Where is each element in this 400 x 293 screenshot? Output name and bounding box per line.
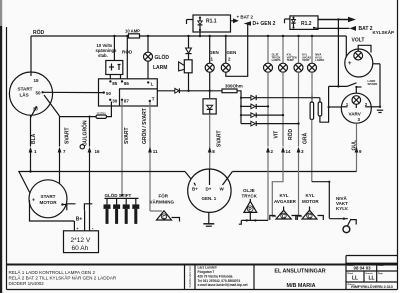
svg-text:FÖR: FÖR: [159, 193, 169, 199]
svg-text:SVART: SVART: [124, 127, 130, 144]
svg-text:10 Ohm: 10 Ohm: [97, 111, 106, 115]
svg-text:300Ohm: 300Ohm: [225, 84, 243, 89]
svg-text:C: C: [308, 214, 312, 220]
svg-text:VIT: VIT: [274, 131, 280, 139]
svg-text:START: START: [18, 87, 33, 92]
svg-text:GRÅ: GRÅ: [302, 133, 309, 145]
svg-text:Konstr: Konstr: [366, 272, 373, 275]
svg-text:14: 14: [286, 149, 292, 154]
svg-text:Foxgatan 7: Foxgatan 7: [198, 270, 215, 274]
svg-text:SVART: SVART: [217, 130, 223, 147]
svg-text:86: 86: [124, 81, 130, 86]
svg-text:LÅS: LÅS: [20, 92, 29, 98]
svg-text:C: C: [162, 215, 166, 221]
svg-text:LAMPA: LAMPA: [315, 58, 324, 62]
svg-text:Godk: Godk: [378, 265, 384, 267]
svg-text:15: 15: [34, 78, 40, 83]
svg-text:GRÖN / SVART: GRÖN / SVART: [141, 108, 148, 144]
svg-text:RIMFYRKLÖVERN 2:313: RIMFYRKLÖVERN 2:313: [351, 284, 393, 289]
svg-text:50: 50: [36, 91, 42, 96]
svg-text:GEN: GEN: [227, 50, 237, 55]
svg-text:D+ GEN 2: D+ GEN 2: [253, 21, 276, 27]
svg-text:BLÅ: BLÅ: [30, 133, 37, 144]
svg-text:KYLSKÅP: KYLSKÅP: [373, 29, 395, 35]
svg-text:+: +: [348, 61, 352, 67]
svg-text:RÖD: RÖD: [122, 49, 133, 55]
svg-text:LL: LL: [352, 275, 358, 281]
svg-text:GUL: GUL: [352, 140, 358, 151]
svg-text:T: T: [152, 97, 155, 102]
svg-text:GEN. 1: GEN. 1: [202, 196, 217, 201]
svg-text:+: +: [32, 198, 35, 204]
svg-text:GLÖD: GLÖD: [155, 54, 170, 61]
svg-text:OLJE: OLJE: [243, 188, 255, 193]
svg-text:Lars Lundell: Lars Lundell: [198, 266, 217, 270]
svg-text:Datum: Datum: [348, 264, 355, 267]
svg-text:EL ANSLUTNINGAR: EL ANSLUTNINGAR: [274, 269, 325, 275]
svg-text:GLÖD STIFT: GLÖD STIFT: [105, 192, 132, 198]
svg-text:DIODER 1N4002: DIODER 1N4002: [9, 281, 45, 286]
svg-text:LARM: LARM: [153, 65, 167, 71]
svg-text:LL: LL: [369, 275, 375, 281]
svg-text:BAT 2: BAT 2: [359, 26, 373, 32]
svg-text:16: 16: [95, 149, 101, 154]
svg-text:C: C: [282, 214, 286, 220]
svg-text:GULGRÖN: GULGRÖN: [82, 120, 89, 146]
svg-text:Ritad: Ritad: [348, 272, 354, 275]
svg-text:Sign: Sign: [378, 273, 383, 275]
svg-text:RELÄ 2 BAT 2 TILL KYLSKÅP: RELÄ 2 BAT 2 TILL KYLSKÅP NÄR GEN 2 LADD…: [9, 275, 117, 281]
svg-text:RÖD: RÖD: [33, 29, 45, 36]
svg-text:TEMP: TEMP: [287, 58, 294, 62]
svg-text:e-mail lasse.lundell@mail.bip: e-mail lasse.lundell@mail.bip.net: [198, 283, 249, 287]
svg-text:2*12 V: 2*12 V: [71, 237, 91, 244]
svg-text:+ BAT 2: + BAT 2: [237, 15, 254, 20]
svg-text:D+: D+: [206, 187, 212, 192]
svg-text:Ritn nr: Ritn nr: [348, 283, 355, 286]
svg-text:B+: B+: [76, 217, 83, 223]
svg-text:Tel 031 297642, 070-5508074: Tel 031 297642, 070-5508074: [198, 279, 241, 283]
svg-text:TRYCK: TRYCK: [242, 194, 258, 199]
svg-text:MOTOR: MOTOR: [302, 199, 319, 204]
svg-text:TEMP: TEMP: [302, 58, 309, 62]
svg-text:426 79 Västra Frölunda: 426 79 Västra Frölunda: [198, 274, 233, 278]
svg-text:M/B MARIA: M/B MARIA: [286, 283, 315, 289]
svg-text:SPÄRR: SPÄRR: [368, 82, 378, 86]
svg-text:MOTOR: MOTOR: [40, 200, 58, 205]
svg-text:VARV: VARV: [349, 112, 362, 117]
svg-text:LAMPA: LAMPA: [272, 58, 281, 62]
svg-text:KYL: KYL: [306, 193, 315, 198]
svg-text:30: 30: [112, 99, 118, 104]
svg-text:R1.2: R1.2: [301, 21, 312, 27]
svg-text:KYL: KYL: [280, 193, 289, 198]
svg-text:L: L: [151, 82, 154, 87]
svg-text:85: 85: [112, 81, 118, 86]
svg-text:R1.1: R1.1: [206, 19, 217, 25]
svg-text:RÖD: RÖD: [287, 129, 294, 141]
svg-text:87: 87: [124, 98, 130, 103]
svg-text:START: START: [41, 194, 56, 199]
svg-text:11: 11: [153, 149, 158, 154]
svg-text:AVGASER: AVGASER: [274, 199, 297, 204]
svg-text:RELÄ 1 LADD KONTROLL LAMPA G: RELÄ 1 LADD KONTROLL LAMPA GEN 2: [9, 269, 96, 275]
svg-text:B+: B+: [192, 187, 198, 192]
svg-text:GEN: GEN: [209, 50, 219, 55]
svg-text:SKAPAD MED CAD: SKAPAD MED CAD: [189, 266, 192, 287]
svg-text:10 AMP: 10 AMP: [125, 29, 140, 34]
svg-text:60 Ah: 60 Ah: [72, 245, 89, 252]
svg-text:VÄRMNING: VÄRMNING: [150, 199, 175, 205]
svg-text:98 04 03: 98 04 03: [354, 265, 372, 270]
svg-text:50: 50: [106, 91, 112, 96]
svg-text:stab.: stab.: [98, 53, 108, 58]
svg-text:VOLT: VOLT: [352, 38, 365, 44]
svg-text:SVART: SVART: [65, 127, 71, 144]
svg-text:KYLV.: KYLV.: [336, 206, 349, 211]
